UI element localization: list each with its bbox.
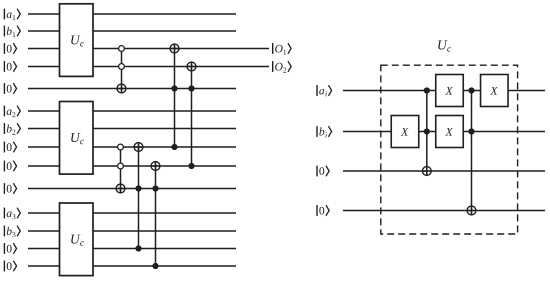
wire 13 (|0>) — [28, 248, 236, 250]
T1 CNOT target on right wire 3 — [422, 167, 431, 176]
gate A open control on wire 4 — [119, 64, 125, 70]
gate A vertical wire — [121, 49, 123, 93]
right wire 1 (|ai>) — [343, 90, 545, 92]
gate A open control on wire 3 — [119, 46, 125, 52]
wire 6 (|a2>) — [28, 110, 236, 112]
op box U_c #2 (wires 6-9) — [60, 102, 94, 175]
label |a3> wire 11 — [4, 208, 20, 220]
wire 8 (|0>) — [28, 146, 236, 148]
gate X on a_i (column 2) — [436, 75, 464, 107]
wire 14 (|0>) — [28, 265, 236, 267]
label |b1> wire 2 — [4, 26, 20, 37]
right wire 2 (|bi>) — [343, 131, 545, 133]
T2 control on a_i — [468, 87, 474, 93]
gate C control on wire 9 — [188, 163, 194, 169]
output label |O1> — [273, 43, 291, 55]
gate F vertical wire — [155, 162, 157, 266]
gate X on b_i (column 2) — [436, 116, 464, 148]
gate E CNOT target on wire 8 — [134, 143, 143, 152]
label |0> wire 4 — [4, 61, 16, 72]
gate D vertical wire — [120, 147, 122, 193]
T1 control on b_i — [424, 128, 430, 134]
label |0> wire 5 — [4, 83, 16, 94]
T2 CNOT target on right wire 4 — [467, 206, 476, 215]
wire 4 (|0>) — [28, 66, 269, 68]
gate E control on wire 13 — [135, 245, 141, 251]
output label |O2> — [273, 61, 291, 73]
gate X on b_i (column 1) — [391, 116, 419, 148]
toffoli T2 vertical wire — [471, 91, 473, 215]
label |0> right wire 4 — [317, 205, 329, 216]
label |0> right wire 3 — [317, 166, 329, 177]
wire 11 (|a3>) — [28, 212, 236, 214]
gate F CNOT target on wire 9 — [151, 162, 160, 171]
gate B vertical wire — [174, 44, 176, 147]
gate D open control on wire 9 — [118, 163, 124, 169]
wire 12 (|b3>) — [28, 230, 236, 232]
gate F control on wire 10 — [152, 185, 158, 191]
label |b2> wire 7 — [4, 123, 20, 135]
T1 control on a_i — [424, 87, 430, 93]
wire 7 (|b2>) — [28, 128, 236, 130]
T2 control on b_i — [468, 128, 474, 134]
wire 9 (|0>) — [28, 165, 236, 167]
label |0> wire 9 — [4, 161, 16, 172]
label |b3> wire 12 — [4, 226, 20, 238]
gate D CNOT target on wire 10 — [116, 184, 125, 193]
op box U_c #3 (wires 11-14) — [60, 203, 94, 276]
label |a_i> — [317, 85, 332, 96]
gate F control on wire 14 — [152, 263, 158, 269]
gate A CNOT target on wire 5 — [117, 84, 126, 93]
gate C control on wire 5 — [188, 85, 194, 91]
toffoli T1 vertical wire — [426, 91, 428, 176]
gate B control on wire 8 — [171, 144, 177, 150]
label |0> wire 10 — [4, 183, 16, 194]
wire 1 (|a1>) — [28, 13, 236, 15]
wire 5 (|0>) — [28, 88, 236, 90]
label |0> wire 13 — [4, 243, 16, 254]
right wire 4 (|0>) — [343, 210, 545, 212]
label |a2> wire 6 — [4, 106, 20, 118]
gate E vertical wire — [138, 143, 140, 249]
wire 2 (|b1>) — [28, 30, 236, 32]
wire 3 (|0>) — [28, 48, 269, 50]
label |0> wire 14 — [4, 261, 16, 272]
wire 10 (|0>) — [28, 188, 236, 190]
op box U_c #1 (wires 1-4) — [60, 4, 94, 77]
gate B CNOT target on wire 3 — [170, 44, 179, 53]
gate E control on wire 10 — [135, 185, 141, 191]
gate C CNOT target on wire 4 — [187, 62, 196, 71]
gate B control on wire 5 — [171, 85, 177, 91]
right wire 3 (|0>) — [343, 170, 545, 172]
label |0> wire 8 — [4, 142, 16, 153]
title U_c above dashed box — [438, 41, 451, 52]
dashed boundary box of U_c — [381, 65, 518, 234]
label |a1> wire 1 — [4, 9, 20, 21]
gate D open control on wire 8 — [118, 144, 124, 150]
gate X on a_i (column 3) — [481, 75, 509, 107]
gate C vertical wire — [191, 62, 193, 166]
label |0> wire 3 — [4, 43, 16, 54]
label |b_i> — [317, 126, 332, 137]
